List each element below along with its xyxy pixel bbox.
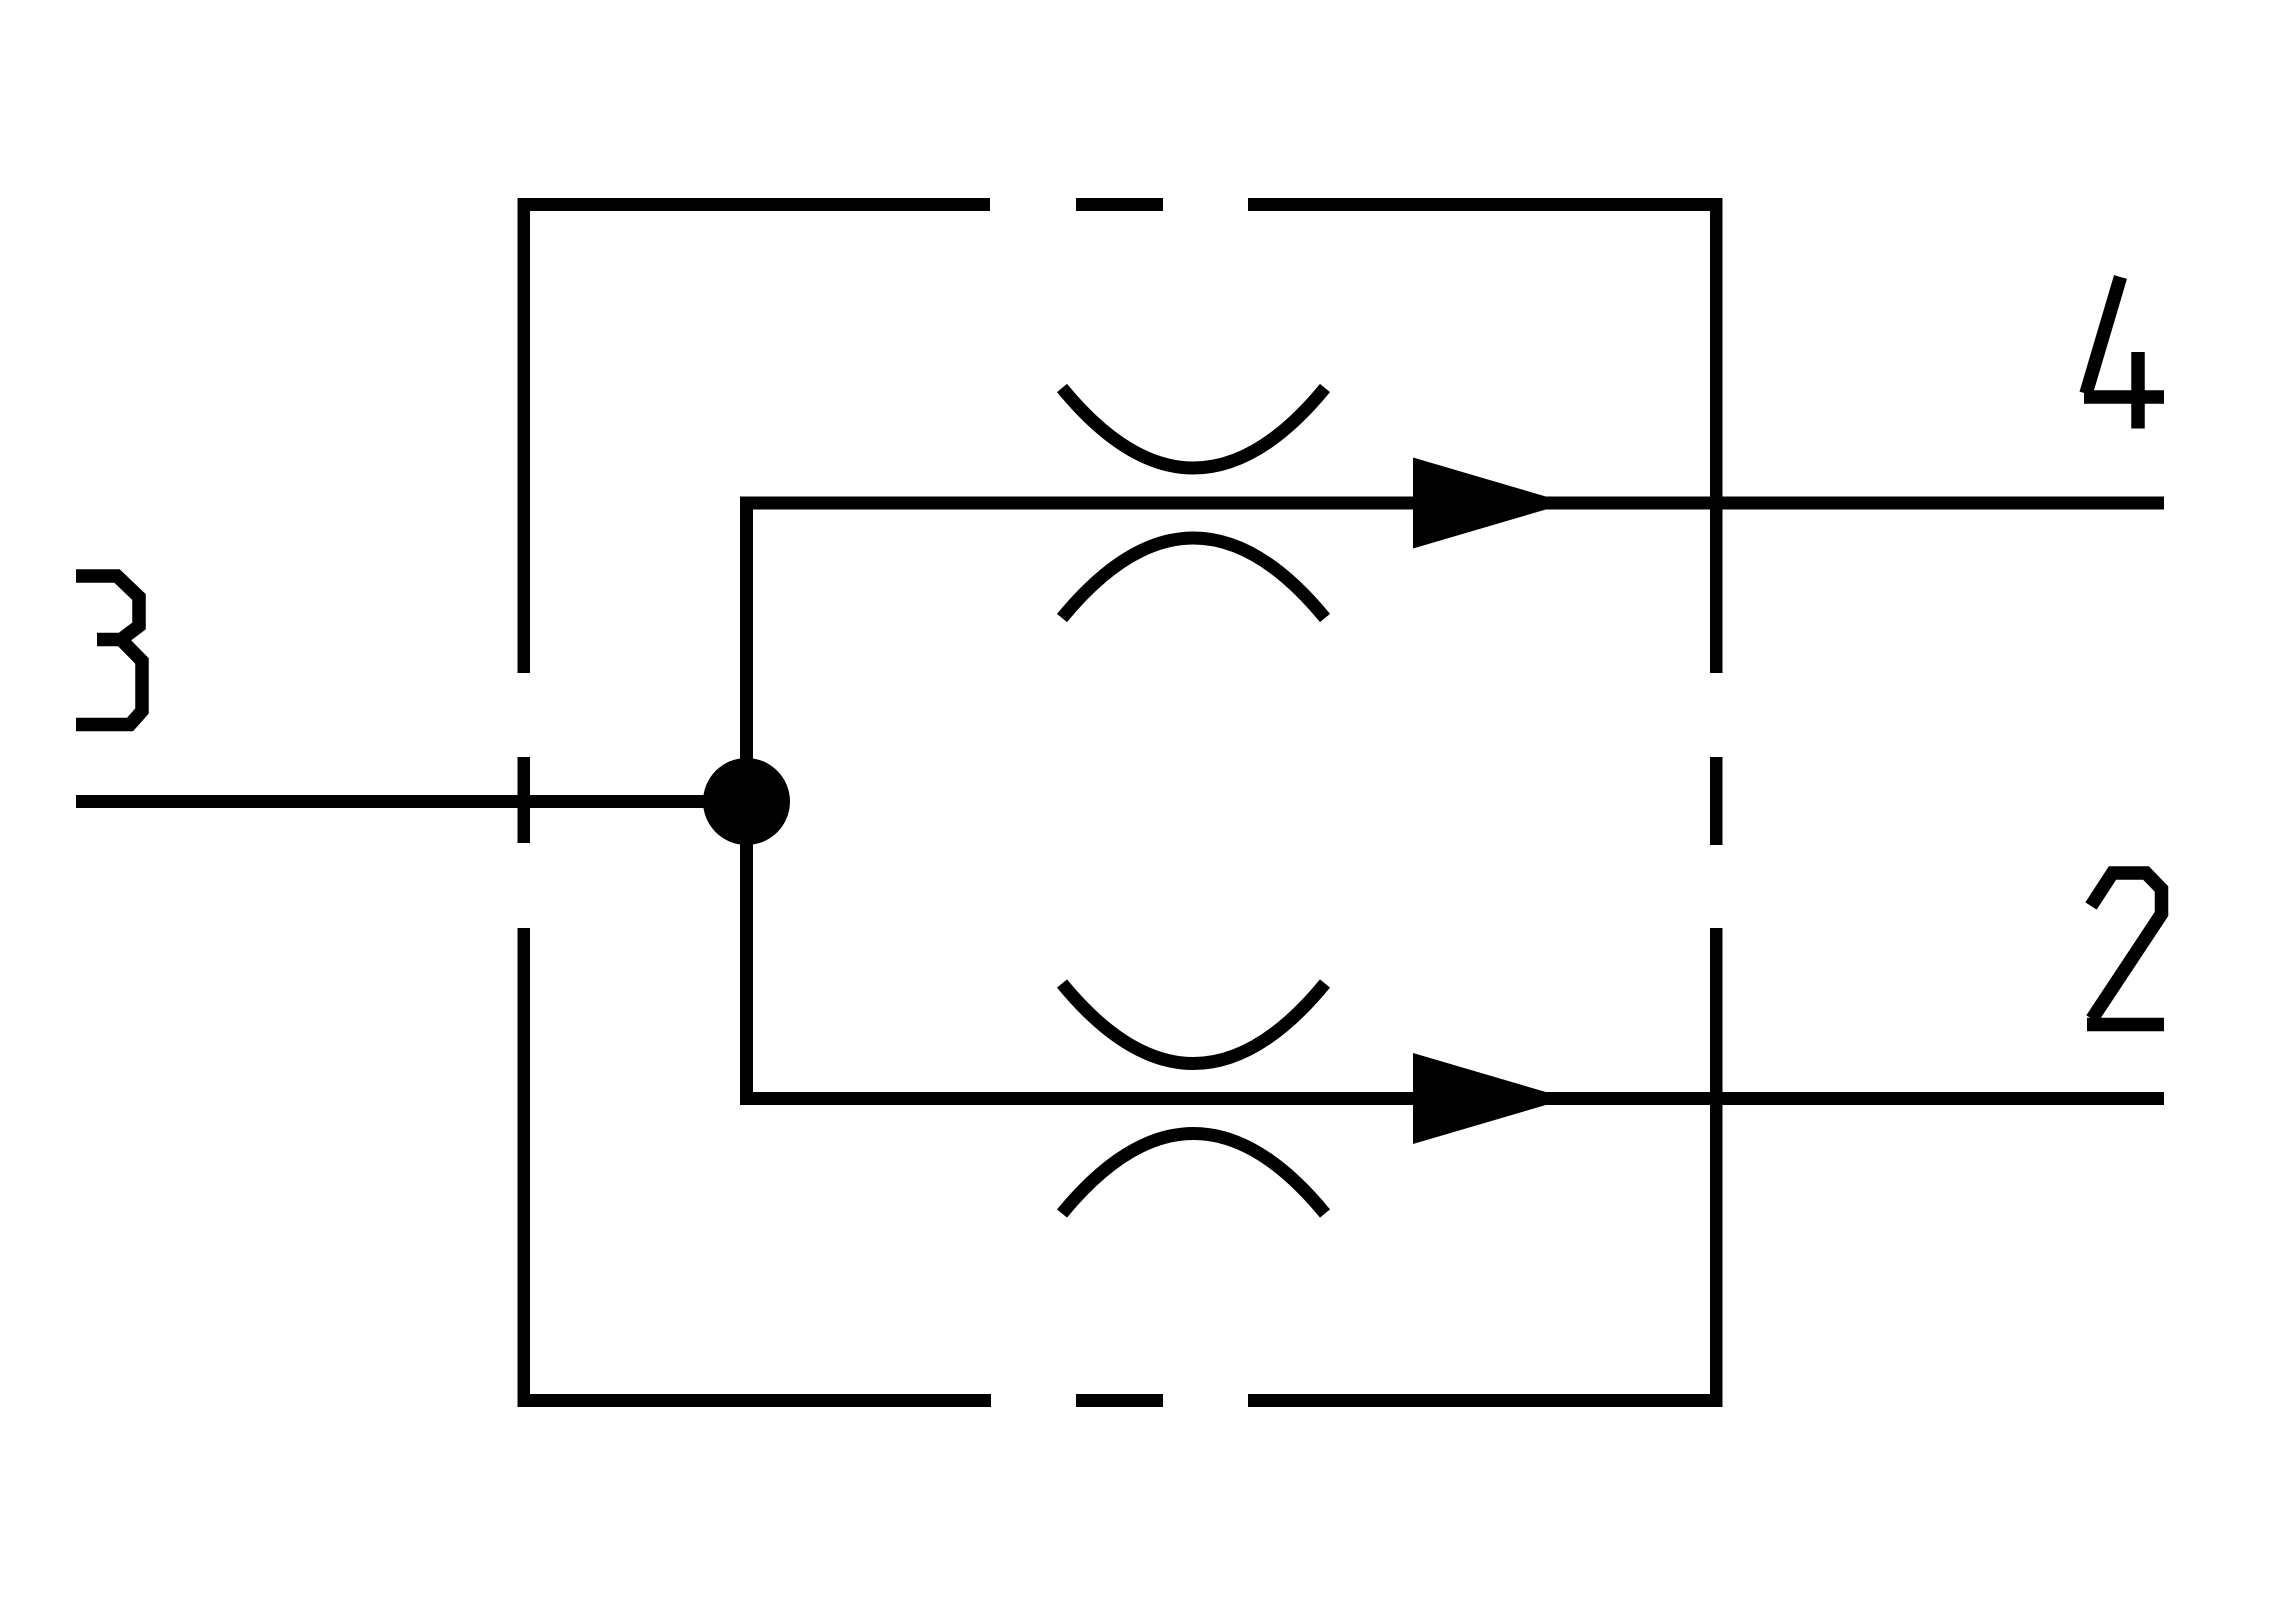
enclosure E1 right edge centre dash xyxy=(1710,757,1723,845)
port label 2 xyxy=(2087,873,2164,1025)
enclosure E1 left edge centre dash xyxy=(518,757,531,843)
enclosure E1 bottom edge right segment xyxy=(1248,1394,1723,1407)
wire branch to port 2 xyxy=(740,1092,2164,1105)
orifice R2 upper arc xyxy=(1062,984,1325,1064)
enclosure E1 left edge upper segment xyxy=(518,198,531,673)
enclosure E1 top edge left segment xyxy=(518,198,991,211)
orifice R1 upper arc xyxy=(1062,388,1325,468)
flow arrow A2 to port 2 xyxy=(1413,1053,1568,1144)
wire riser junction to branches xyxy=(740,497,753,1105)
port label 4 xyxy=(2084,277,2164,429)
enclosure E1 top edge right segment xyxy=(1248,198,1723,211)
wire port 3 inlet xyxy=(76,795,750,808)
enclosure E1 right edge upper segment xyxy=(1710,198,1723,673)
orifice R1 lower arc xyxy=(1062,538,1325,618)
junction node J1 xyxy=(703,758,790,845)
port label 3 xyxy=(76,576,142,725)
enclosure E1 bottom edge centre dash xyxy=(1076,1394,1163,1407)
enclosure E1 right edge lower segment xyxy=(1710,928,1723,1407)
enclosure E1 top edge centre dash xyxy=(1076,198,1163,211)
orifice R2 lower arc xyxy=(1062,1134,1325,1214)
enclosure E1 left edge lower segment xyxy=(518,928,531,1407)
flow arrow A1 to port 4 xyxy=(1413,458,1568,549)
enclosure E1 bottom edge left segment xyxy=(518,1394,992,1407)
wire branch to port 4 xyxy=(740,497,2164,510)
